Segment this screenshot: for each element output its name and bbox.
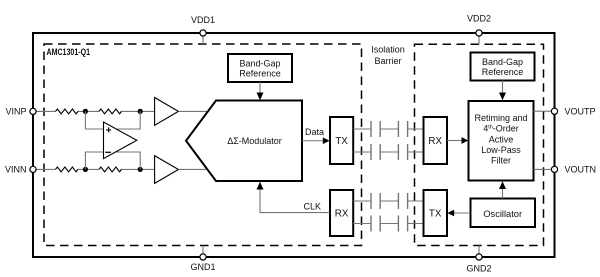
arrowhead CLK into modulator bottom (257, 182, 264, 190)
filter box U3 (469, 101, 534, 181)
svg-text:Active: Active (489, 134, 514, 144)
svg-text:TX: TX (429, 209, 442, 220)
oscillator box U4 (471, 199, 536, 228)
svg-text:VDD1: VDD1 (191, 15, 215, 25)
resistor R4 (VINN second) (99, 167, 122, 172)
wire VINN input rail (36, 168, 155, 170)
wire isolation data top (353, 128, 423, 130)
wire RX to filter (447, 140, 462, 142)
capacitor C3 (371, 144, 380, 160)
wire op-amp bottom output to node D (116, 152, 141, 169)
wire oscillator to filter (502, 189, 504, 199)
arrowhead into TX right (447, 210, 454, 217)
svg-text:GND2: GND2 (466, 263, 491, 273)
svg-text:Reference: Reference (482, 67, 524, 77)
svg-text:Reference: Reference (239, 69, 281, 79)
svg-text:Data: Data (305, 127, 324, 137)
pin VDD1 (191, 15, 215, 44)
svg-text:VOUTP: VOUTP (565, 106, 596, 116)
arrowhead into filter (462, 137, 469, 144)
wire band-gap to filter (502, 81, 504, 94)
svg-text:RX: RX (428, 136, 442, 147)
wire buffer A1 to modulator (178, 110, 208, 112)
wire filter to VOUTN (534, 168, 552, 170)
capacitor C1 (371, 121, 380, 137)
svg-text:VINN: VINN (5, 165, 27, 175)
wire node C to op-amp - input (85, 152, 103, 169)
TX box (clock, low side) (424, 190, 448, 236)
pin VOUTN (551, 165, 596, 175)
pin VOUTP (551, 106, 595, 116)
svg-text:CLK: CLK (303, 201, 321, 211)
resistor R2 (VINP second) (99, 109, 122, 114)
arrowhead into filter top (499, 93, 506, 101)
delta-sigma modulator U2 (186, 101, 302, 182)
pin VDD2 (467, 14, 491, 45)
wire op-amp top output to node B (116, 111, 140, 129)
wire VINP input rail (36, 110, 155, 112)
svg-text:TX: TX (335, 136, 348, 147)
wire filter to VOUTP (534, 110, 552, 112)
svg-text:Barrier: Barrier (374, 56, 401, 66)
wire oscillator to TX (454, 212, 470, 214)
wire Data modulator to TX (302, 140, 323, 142)
outer package boundary (33, 33, 555, 257)
pin GND1 (190, 246, 215, 273)
node C (VINN after R3) (83, 167, 88, 172)
pin GND2 (466, 246, 491, 274)
wire buffer A2 to modulator (178, 168, 207, 170)
op-amp U1 (104, 122, 137, 159)
svg-text:RX: RX (335, 209, 349, 220)
TX box (data, high side) (330, 117, 353, 164)
pin VINN (5, 165, 36, 175)
svg-text:Isolation: Isolation (371, 45, 405, 55)
capacitor C5 (371, 193, 380, 209)
svg-text:VOUTN: VOUTN (565, 165, 597, 175)
arrowhead into modulator top (257, 93, 264, 101)
svg-text:GND1: GND1 (190, 262, 215, 272)
resistor R1 (VINP first) (56, 109, 79, 114)
node D (VINN after R4) (138, 167, 143, 172)
svg-text:AMC1301-Q1: AMC1301-Q1 (47, 47, 91, 58)
high-side dashed box (AMC1301-Q1 left) (44, 44, 362, 246)
buffer A2 (bottom) (155, 156, 179, 184)
wire isolation clock bottom (353, 223, 423, 225)
capacitor C6 (398, 193, 407, 209)
node A (VINP after R1) (83, 109, 88, 114)
svg-text:Band-Gap: Band-Gap (239, 59, 280, 69)
arrowhead into filter bottom (499, 181, 506, 189)
arrowhead Data into TX (323, 137, 330, 144)
band-gap reference box (high side) (228, 54, 292, 82)
svg-text:VDD2: VDD2 (467, 14, 491, 24)
svg-text:Filter: Filter (491, 156, 511, 166)
band-gap reference box (low side) (471, 53, 535, 81)
wire CLK RX to modulator (260, 190, 330, 213)
svg-text:Oscillator: Oscillator (483, 209, 522, 219)
RX box (clock, high side) (330, 190, 353, 236)
node B (VINP after R2) (138, 109, 143, 114)
buffer A1 (top) (155, 98, 179, 126)
capacitor C7 (371, 216, 380, 232)
pin VINP (5, 107, 36, 117)
svg-text:Retiming and: Retiming and (474, 113, 527, 123)
RX box (data, low side) (424, 117, 448, 164)
svg-text:Band-Gap: Band-Gap (482, 57, 523, 67)
wire isolation data bottom (353, 151, 423, 153)
resistor R3 (VINN first) (56, 167, 79, 172)
low-side dashed box (right) (415, 44, 544, 245)
wire band-gap to modulator (259, 82, 261, 93)
svg-text:ΔΣ-Modulator: ΔΣ-Modulator (227, 136, 282, 146)
capacitor C4 (398, 144, 407, 160)
svg-text:Low-Pass: Low-Pass (481, 145, 521, 155)
wire isolation clock top (353, 200, 423, 202)
capacitor C8 (398, 216, 407, 232)
wire node A to op-amp + input (85, 111, 103, 129)
capacitor C2 (398, 121, 407, 137)
svg-text:VINP: VINP (5, 107, 26, 117)
